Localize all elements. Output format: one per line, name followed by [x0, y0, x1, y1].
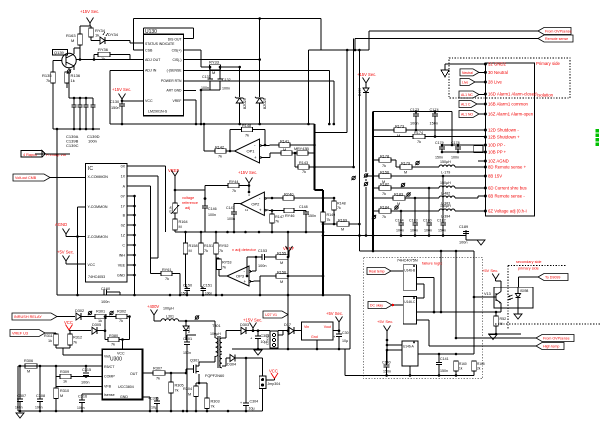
op-amp U130 box: [143, 29, 183, 116]
wire opto gnd: [517, 308, 519, 314]
wire heavy vertical bus A: [315, 124, 324, 295]
svg-text:R309: R309: [60, 370, 69, 374]
svg-text:GND: GND: [117, 274, 125, 278]
resistor R142: [215, 146, 226, 159]
svg-text:R148: R148: [242, 124, 251, 128]
svg-text:R302: R302: [117, 310, 126, 314]
svg-text:OP3: OP3: [236, 274, 245, 279]
svg-text:R155: R155: [277, 252, 286, 256]
wire: [105, 41, 143, 44]
svg-text:BZU23: BZU23: [263, 98, 267, 109]
wire IC right bus: [127, 195, 136, 295]
capacitor C160: [101, 287, 120, 304]
svg-text:M: M: [71, 38, 74, 43]
svg-text:L301: L301: [166, 315, 174, 319]
wire: [345, 349, 474, 377]
label Primary side: [536, 61, 560, 66]
svg-text:reference: reference: [182, 201, 198, 205]
svg-text:R52: R52: [500, 317, 507, 321]
svg-text:Vout: Vout: [324, 325, 331, 329]
label failure logic: [422, 261, 442, 266]
wire OP2 in: [265, 197, 284, 212]
wire: [292, 152, 315, 167]
diode D305: [92, 317, 106, 335]
capacitor C146: [202, 199, 217, 233]
ground: [16, 413, 24, 418]
svg-text:6Z Voltage adj (0.h-I: 6Z Voltage adj (0.h-I: [488, 209, 527, 214]
svg-text:R310: R310: [60, 389, 69, 393]
svg-text:C153: C153: [258, 249, 267, 253]
svg-text:6D Current shre bus: 6D Current shre bus: [488, 186, 527, 191]
ground: [489, 335, 497, 340]
wire: [53, 83, 93, 129]
wire: [386, 340, 402, 364]
wire gnd bus v13: [488, 333, 521, 336]
trimmer voltage reference: [169, 190, 180, 214]
svg-text:10µ: 10µ: [342, 339, 348, 343]
ground: [477, 240, 485, 245]
resistor R164: [173, 213, 188, 232]
inductor L394: [439, 204, 485, 219]
resistor R160: [454, 337, 467, 376]
svg-text:100n: 100n: [15, 406, 23, 410]
svg-text:R174: R174: [414, 131, 423, 135]
svg-text:failure logic: failure logic: [422, 261, 442, 266]
wire: [258, 330, 270, 332]
transistor Q139: [53, 50, 77, 71]
svg-text:100n: 100n: [81, 381, 89, 385]
wire U300 gnd pin: [143, 397, 152, 412]
svg-text:D305: D305: [92, 323, 101, 327]
svg-text:BZU23: BZU23: [243, 98, 247, 109]
resistor R380: [105, 331, 130, 350]
wire 0X net: [127, 166, 166, 232]
svg-text:7k: 7k: [73, 341, 77, 345]
svg-text:100n: 100n: [410, 229, 418, 233]
boundary dashed: [508, 266, 567, 331]
resistor R312: [56, 331, 102, 355]
wire: [309, 19, 370, 125]
svg-text:C151: C151: [203, 284, 212, 288]
wire: [209, 66, 241, 97]
svg-text:7k: 7k: [211, 405, 215, 409]
wire node: [53, 48, 143, 72]
svg-text:RY53: RY53: [222, 261, 231, 265]
svg-text:adj: adj: [185, 206, 190, 210]
svg-text:75.0k: 75.0k: [169, 206, 173, 213]
capacitor C141: [436, 353, 449, 376]
svg-text:150n: 150n: [383, 370, 391, 374]
resistor R304: [183, 374, 199, 412]
svg-text:100n: 100n: [410, 122, 418, 126]
wire: [290, 144, 316, 147]
capacitor C179: [435, 141, 445, 160]
green marks: [596, 129, 600, 146]
svg-text:10Z AGND: 10Z AGND: [488, 159, 509, 164]
svg-text:100n: 100n: [396, 229, 404, 233]
svg-text:C316: C316: [78, 395, 87, 399]
resistor R155: [276, 252, 288, 266]
svg-text:CSB: CSB: [145, 49, 153, 53]
tag Live: [460, 79, 485, 86]
diode D304: [222, 355, 263, 404]
svg-text:LM2901N-S: LM2901N-S: [148, 110, 168, 114]
svg-text:100n: 100n: [222, 87, 230, 91]
resistor R305: [169, 373, 184, 411]
svg-text:MUR: MUR: [187, 325, 191, 333]
power +15V Sec D190: [357, 72, 376, 88]
wire CIS- net: [183, 19, 261, 98]
svg-text:CON303: CON303: [266, 334, 270, 345]
tag AL1 C: [459, 101, 485, 108]
svg-text:R158: R158: [189, 244, 198, 248]
svg-text:7k: 7k: [245, 134, 249, 138]
svg-text:+5V Sec.: +5V Sec.: [377, 319, 393, 324]
label AGND: [55, 222, 67, 227]
wire: [67, 68, 69, 98]
diode D17: [284, 323, 302, 334]
wire CIS+ net: [183, 50, 209, 67]
wire POWER RTN net: [183, 81, 333, 124]
resistor R158: [183, 232, 197, 254]
svg-text:8D Remote sense +: 8D Remote sense +: [488, 165, 527, 170]
svg-text:R173: R173: [395, 125, 404, 129]
svg-text:RY36: RY36: [98, 47, 109, 52]
capacitor C173: [410, 108, 419, 130]
svg-text:R182: R182: [380, 183, 389, 187]
tag VREF U3: [10, 330, 56, 337]
resistor R165: [472, 361, 485, 375]
svg-text:RY44: RY44: [229, 180, 238, 184]
svg-text:Isolation: Isolation: [537, 93, 554, 98]
no-connect: [351, 176, 355, 180]
svg-text:M: M: [280, 280, 283, 284]
wire: [309, 166, 316, 169]
resistor R169: [322, 219, 361, 232]
capacitor C139D: [91, 98, 96, 129]
resistor RY43B: [297, 147, 309, 155]
zener diode BZU23 b: [255, 97, 267, 124]
svg-text:7k: 7k: [156, 377, 160, 381]
svg-text:2k: 2k: [477, 367, 481, 371]
svg-text:Vin: Vin: [304, 325, 309, 329]
svg-text:7k: 7k: [46, 78, 50, 83]
resistor R156b: [366, 171, 485, 185]
resistor R311: [44, 334, 58, 348]
svg-text:7k: 7k: [382, 164, 386, 168]
svg-text:7k: 7k: [218, 155, 222, 159]
wire RY52 bottom: [215, 254, 217, 295]
svg-text:1k: 1k: [63, 380, 67, 384]
svg-text:C308: C308: [36, 394, 45, 398]
ground bus: [53, 128, 100, 131]
svg-text:VCC: VCC: [145, 99, 153, 103]
capacitor C130: [110, 100, 125, 124]
label VCC red: [64, 320, 73, 325]
svg-text:VFB: VFB: [104, 385, 112, 389]
svg-text:1Y: 1Y: [121, 205, 126, 209]
svg-text:150n: 150n: [308, 214, 316, 218]
wire: [354, 39, 538, 52]
no-connect: [415, 161, 419, 165]
connector CON303: [266, 331, 279, 348]
svg-text:11: 11: [245, 208, 248, 212]
wire opto: [518, 277, 538, 287]
svg-text:M: M: [280, 261, 283, 265]
wire AGND row: [175, 231, 324, 234]
capacitor C139A: [72, 98, 77, 129]
connector pins: [484, 62, 537, 214]
svg-text:VCC: VCC: [88, 263, 96, 267]
capacitor C133: [201, 67, 213, 90]
svg-text:D303: D303: [240, 323, 249, 327]
svg-text:R183: R183: [394, 193, 403, 197]
tag Remote sense: [538, 35, 573, 42]
svg-text:From OVPsense: From OVPsense: [543, 337, 570, 341]
svg-text:+5V Sec.: +5V Sec.: [57, 250, 74, 255]
wire: [230, 130, 266, 152]
svg-text:+: +: [259, 207, 262, 212]
svg-text:RY46: RY46: [285, 214, 294, 218]
capacitor C316: [77, 394, 102, 411]
svg-text:150µH: 150µH: [440, 181, 451, 185]
tag DC okay: [368, 302, 403, 309]
power +5V Sec failure: [377, 319, 393, 341]
resistor RY34: [89, 28, 106, 38]
wire: [204, 184, 251, 200]
tag Real temp: [367, 268, 403, 275]
svg-text:7k: 7k: [111, 343, 115, 347]
multiplexer IC 74HC4053: [86, 164, 128, 283]
wire bus 251: [358, 49, 474, 253]
wire ART GND net: [183, 90, 196, 92]
svg-text:CIS(+): CIS(+): [172, 49, 182, 53]
label VREF: [168, 168, 180, 173]
wire from tags: [417, 320, 536, 346]
capacitor C308: [35, 366, 45, 411]
transistor V13: [484, 281, 501, 312]
svg-text:1k: 1k: [48, 339, 52, 343]
svg-text:R164: R164: [179, 220, 188, 224]
resistor R183: [373, 192, 439, 206]
diode DY34: [100, 32, 119, 44]
svg-text:D302: D302: [75, 309, 84, 313]
connector J1 box: [485, 63, 534, 216]
svg-text:R304: R304: [183, 387, 192, 391]
label C139A-D: [66, 134, 100, 148]
svg-text:100n: 100n: [35, 406, 43, 410]
failure logic dashed box: [364, 258, 483, 379]
resistor R52: [494, 312, 506, 334]
capacitor C132: [217, 67, 230, 91]
svg-text:R303: R303: [211, 400, 220, 404]
svg-text:UCC3804: UCC3804: [118, 385, 134, 389]
gate U146-B: [403, 265, 416, 291]
wire CSB to top bus: [134, 19, 144, 51]
svg-text:+: +: [240, 401, 242, 405]
svg-text:100n: 100n: [77, 406, 85, 410]
mosfet Q300: [185, 356, 225, 378]
tag From OVPsense top: [538, 28, 572, 35]
svg-text:+15V Sec.: +15V Sec.: [80, 9, 99, 14]
wire: [203, 123, 235, 153]
svg-text:150n: 150n: [435, 156, 443, 160]
resistor R142B: [281, 147, 297, 155]
resistor R147: [270, 211, 284, 234]
isolation dashed box: [449, 58, 570, 98]
svg-text:7k: 7k: [417, 140, 421, 144]
svg-text:150n: 150n: [438, 229, 446, 233]
resistor RY52: [214, 232, 229, 254]
resistor RY44: [228, 180, 239, 193]
power +400V antenna: [151, 310, 162, 322]
svg-text:D304: D304: [227, 363, 236, 367]
svg-text:Volt-out CMB: Volt-out CMB: [15, 176, 37, 180]
label Isolation: [537, 93, 554, 98]
power +15V Sec OP2: [238, 170, 257, 193]
ground: [254, 350, 262, 355]
svg-text:150n: 150n: [430, 122, 438, 126]
label primary side: [518, 267, 539, 271]
svg-text:secondary side: secondary side: [516, 260, 542, 264]
svg-text:C147: C147: [226, 206, 235, 210]
no-connect: [195, 315, 199, 319]
wire filter ground bus: [322, 234, 466, 237]
svg-text:10B PP +: 10B PP +: [488, 150, 507, 155]
wire U146-A out: [418, 353, 474, 355]
svg-text:7k: 7k: [232, 189, 236, 193]
svg-text:POWER RTN: POWER RTN: [161, 79, 182, 83]
jumper box: [474, 145, 483, 152]
resistor R149: [321, 212, 335, 222]
tag To D9099: [538, 274, 568, 281]
svg-text:C30: C30: [342, 331, 349, 335]
svg-text:Neutral: Neutral: [462, 71, 473, 75]
svg-text:ADJ OUT: ADJ OUT: [145, 58, 161, 62]
svg-text:v adj detector: v adj detector: [232, 247, 257, 252]
svg-text:Live: Live: [462, 81, 468, 85]
wire ground bus U300: [18, 410, 263, 413]
svg-text:M: M: [60, 394, 63, 398]
resistor R163: [66, 33, 82, 45]
svg-text:16Z Alarm1 Alarm-open: 16Z Alarm1 Alarm-open: [488, 112, 534, 117]
svg-text:7k: 7k: [302, 170, 306, 174]
resistor RY61: [151, 268, 182, 296]
resistor R307: [153, 367, 186, 381]
svg-text:Q301: Q301: [190, 359, 199, 363]
wire DIS OUT loop: [143, 28, 193, 39]
svg-text:28 Live: 28 Live: [488, 80, 502, 85]
capacitor C305: [333, 331, 349, 349]
svg-text:RY33: RY33: [209, 60, 220, 65]
svg-text:R165: R165: [477, 362, 485, 366]
svg-text:Vref: Vref: [104, 355, 110, 359]
svg-text:U146-C: U146-C: [404, 300, 416, 304]
svg-text:C304: C304: [250, 400, 259, 404]
svg-text:R5/CT: R5/CT: [104, 365, 115, 369]
capacitor C315: [81, 366, 91, 385]
tag U27 V1: [263, 311, 288, 318]
svg-text:R311: R311: [44, 334, 53, 338]
svg-text:U146-B: U146-B: [404, 269, 415, 273]
label v adj detector: [232, 247, 257, 252]
svg-text:R312: R312: [73, 336, 82, 340]
svg-text:VREF U3: VREF U3: [12, 332, 28, 336]
resistor R135: [42, 72, 55, 83]
svg-text:VCC: VCC: [117, 352, 125, 356]
wire: [200, 89, 220, 124]
resistor RY53: [217, 258, 232, 276]
svg-text:+5V Sec.: +5V Sec.: [482, 268, 498, 273]
svg-text:100n: 100n: [227, 217, 235, 221]
wire top bus: [134, 17, 321, 20]
power AGND antenna: [63, 229, 86, 238]
wire: [287, 275, 325, 278]
wire ADJ IN: [110, 71, 143, 125]
svg-text:7k: 7k: [327, 218, 331, 222]
capacitor C174: [430, 108, 439, 137]
svg-text:150n: 150n: [440, 369, 448, 373]
svg-text:AL1 C: AL1 C: [461, 103, 471, 107]
power VREF antenna 2: [286, 232, 293, 349]
regulator 78L05: [302, 322, 333, 340]
tag From OVPsense: [536, 335, 574, 342]
resistor R309: [56, 366, 102, 384]
svg-text:C130: C130: [110, 100, 119, 104]
svg-text:150µH: 150µH: [440, 160, 451, 164]
resistor R148b: [332, 197, 346, 226]
svg-text:C146: C146: [208, 207, 217, 211]
zener diode BZU23 a: [235, 97, 247, 124]
label 74HC4075N: [397, 259, 418, 263]
svg-text:IC: IC: [88, 166, 93, 172]
svg-text:U146-A: U146-A: [403, 345, 415, 349]
resistor R303: [198, 382, 220, 411]
label +400V: [147, 304, 159, 309]
svg-text:U27 V1: U27 V1: [265, 313, 277, 317]
svg-text:M: M: [404, 171, 407, 175]
wire: [94, 55, 130, 60]
svg-text:M: M: [283, 148, 286, 152]
transformer T301: [210, 321, 222, 368]
svg-text:R160: R160: [459, 362, 467, 366]
svg-text:R306: R306: [24, 359, 33, 363]
capacitor C150: [181, 284, 192, 296]
svg-text:M: M: [189, 249, 192, 253]
svg-text:OP2: OP2: [251, 201, 260, 206]
label secondary side: [516, 260, 542, 264]
svg-text:C184: C184: [395, 219, 404, 223]
capacitor C139C: [84, 98, 89, 129]
svg-text:VREF: VREF: [283, 246, 295, 251]
inductor L482: [439, 181, 485, 196]
svg-text:INRUSH RELAY: INRUSH RELAY: [14, 315, 42, 319]
wire main bus: [57, 294, 350, 297]
svg-text:7k: 7k: [222, 266, 226, 270]
wire: [315, 49, 349, 133]
wire -SENSE net: [183, 71, 329, 125]
resistor R141: [279, 139, 290, 152]
capacitor C303: [250, 331, 269, 349]
svg-text:+15V Sec.: +15V Sec.: [238, 170, 257, 175]
svg-text:+15V Sec.: +15V Sec.: [243, 318, 262, 323]
jumper Jmp304: [259, 376, 280, 411]
svg-text:R169: R169: [338, 219, 347, 223]
capacitor C189: [459, 225, 478, 245]
resistor R179: [396, 162, 439, 175]
resistor R148 feedback: [242, 124, 253, 138]
resistor R173: [373, 125, 485, 139]
